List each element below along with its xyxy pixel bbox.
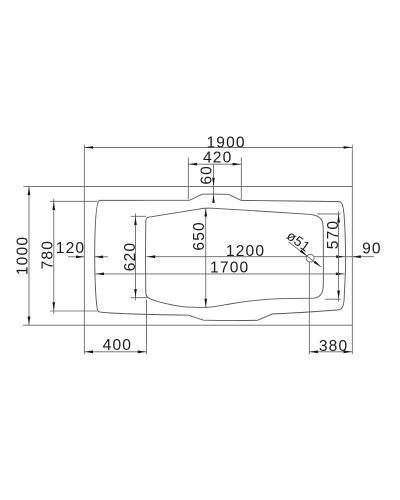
svg-text:400: 400: [103, 337, 132, 354]
svg-text:1700: 1700: [210, 259, 249, 276]
svg-text:420: 420: [203, 150, 232, 167]
svg-text:380: 380: [319, 338, 348, 355]
svg-text:570: 570: [325, 220, 342, 249]
svg-text:780: 780: [40, 240, 57, 269]
svg-text:650: 650: [191, 221, 208, 250]
svg-text:1000: 1000: [15, 236, 32, 275]
svg-text:620: 620: [122, 242, 139, 271]
svg-text:90: 90: [362, 241, 382, 258]
svg-text:60: 60: [199, 165, 216, 185]
svg-text:1200: 1200: [226, 243, 265, 260]
svg-text:120: 120: [56, 240, 85, 257]
